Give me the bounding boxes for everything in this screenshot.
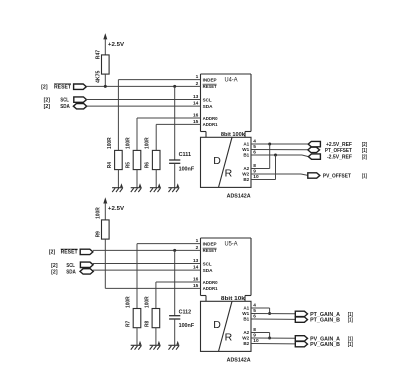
svg-text:-2.5V_REF: -2.5V_REF: [327, 155, 352, 161]
svg-text:RESET: RESET: [61, 250, 78, 256]
svg-text:[1]: [1]: [348, 342, 353, 348]
svg-text:ADDR0: ADDR0: [203, 116, 218, 121]
svg-text:100nF: 100nF: [179, 166, 195, 172]
svg-text:[2]: [2]: [41, 84, 48, 90]
svg-text:SDA: SDA: [203, 104, 214, 109]
svg-text:A1: A1: [243, 142, 249, 147]
svg-text:D: D: [213, 319, 221, 331]
svg-text:ADS142A: ADS142A: [227, 357, 251, 363]
svg-text:PV_GAIN_B: PV_GAIN_B: [310, 342, 340, 348]
svg-text:[2]: [2]: [362, 155, 367, 161]
svg-text:[2]: [2]: [51, 269, 58, 275]
svg-text:[1]: [1]: [362, 174, 367, 180]
svg-text:[1]: [1]: [362, 148, 367, 154]
svg-text:INDEP: INDEP: [203, 241, 217, 246]
svg-text:W2: W2: [242, 172, 249, 177]
svg-text:PT_GAIN_B: PT_GAIN_B: [310, 318, 340, 324]
svg-text:ADDR1: ADDR1: [203, 122, 218, 127]
svg-text:SCL: SCL: [60, 98, 68, 104]
svg-text:SDA: SDA: [203, 268, 214, 273]
svg-text:SDA: SDA: [66, 269, 76, 275]
svg-text:8bit 10k: 8bit 10k: [221, 296, 245, 302]
svg-text:PT_OFFSET: PT_OFFSET: [325, 148, 352, 154]
svg-text:C112: C112: [179, 309, 192, 315]
svg-text:B1: B1: [243, 153, 249, 158]
svg-text:W1: W1: [242, 311, 249, 316]
svg-text:100R: 100R: [126, 296, 132, 308]
svg-text:ADDR0: ADDR0: [203, 280, 218, 285]
svg-text:8bit 100k: 8bit 100k: [221, 132, 245, 138]
svg-text:R9: R9: [96, 231, 102, 237]
svg-text:C111: C111: [179, 152, 192, 158]
svg-text:W1: W1: [242, 147, 249, 152]
svg-text:[2]: [2]: [51, 263, 58, 269]
svg-text:U4-A: U4-A: [225, 77, 238, 83]
svg-text:100R: 100R: [96, 207, 102, 219]
svg-text:SCL: SCL: [203, 261, 212, 266]
svg-text:A2: A2: [243, 166, 249, 171]
svg-text:D: D: [213, 155, 221, 167]
svg-text:R6: R6: [145, 162, 151, 168]
svg-text:U5-A: U5-A: [225, 241, 238, 247]
svg-text:[2]: [2]: [44, 98, 51, 104]
svg-text:R4: R4: [107, 162, 113, 168]
svg-text:R7: R7: [126, 321, 132, 327]
svg-text:100R: 100R: [145, 137, 151, 149]
svg-text:RESET: RESET: [203, 84, 217, 89]
svg-text:A1: A1: [243, 306, 249, 311]
svg-text:RESET: RESET: [54, 84, 71, 90]
svg-text:RESET: RESET: [203, 248, 217, 253]
svg-text:B1: B1: [243, 317, 249, 322]
svg-text:INDEP: INDEP: [203, 77, 217, 82]
svg-text:+2.5V: +2.5V: [108, 42, 124, 48]
svg-text:+2.5V: +2.5V: [108, 206, 124, 212]
svg-text:ADS142A: ADS142A: [227, 193, 251, 199]
svg-text:R: R: [225, 331, 233, 343]
svg-text:SCL: SCL: [66, 263, 74, 269]
svg-text:4K75: 4K75: [96, 70, 102, 83]
svg-text:ADDR1: ADDR1: [203, 286, 218, 291]
svg-text:B2: B2: [243, 177, 249, 182]
svg-text:[1]: [1]: [348, 318, 353, 324]
svg-text:100R: 100R: [126, 137, 132, 149]
svg-text:100nF: 100nF: [179, 323, 195, 329]
svg-text:PV_OFFSET: PV_OFFSET: [323, 174, 351, 180]
svg-text:R47: R47: [96, 50, 102, 60]
svg-text:SCL: SCL: [203, 97, 212, 102]
svg-text:100R: 100R: [144, 296, 150, 308]
svg-text:SDA: SDA: [60, 104, 70, 110]
svg-text:R: R: [225, 167, 233, 179]
svg-text:W2: W2: [242, 336, 249, 341]
svg-text:100R: 100R: [107, 137, 113, 149]
svg-text:[2]: [2]: [44, 104, 51, 110]
svg-text:B2: B2: [243, 341, 249, 346]
svg-text:A2: A2: [243, 330, 249, 335]
svg-text:R5: R5: [126, 162, 132, 168]
svg-text:[2]: [2]: [49, 250, 56, 256]
svg-text:R8: R8: [144, 321, 150, 327]
